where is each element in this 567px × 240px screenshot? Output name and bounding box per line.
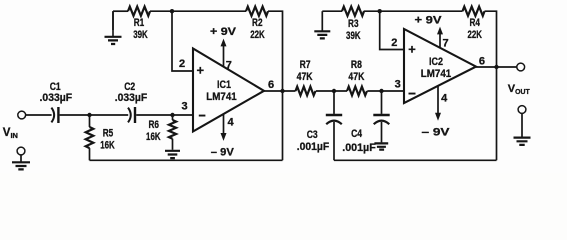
node C2/R6 junction [170,113,174,117]
IC2 pin7 +9V arrow [437,27,443,48]
wire R7 to R8 [316,90,347,92]
svg-text:.001µF: .001µF [297,141,330,153]
IC1 pin7 +9V arrow [221,39,227,67]
IC1 pin4 -9V arrow [221,114,227,141]
IC2 minus input mark [409,93,416,95]
label C3 value .001uF [297,129,330,153]
svg-text:16K: 16K [146,131,161,143]
wire C1 to C2 [60,114,129,116]
svg-text:39K: 39K [346,30,361,42]
svg-text:R7: R7 [300,59,311,71]
node IC1 output junction [280,89,284,93]
ground (below C4) [374,143,388,149]
capacitor C4 [373,91,389,142]
capacitor C1 [51,107,58,123]
svg-text:47K: 47K [348,71,364,83]
ground (below VOUT return) [514,114,531,145]
ground (left of R1) [105,11,122,44]
label C1 value .033uF [40,81,73,104]
label C2 value .033uF [115,81,148,104]
label C4 value .001uF [342,128,376,154]
svg-text:16K: 16K [100,140,115,152]
IC2 pin4 -9V arrow [435,86,441,121]
svg-text:IC2: IC2 [429,56,443,68]
wire top rail stage2 left [322,10,342,12]
resistor R1 [128,7,150,16]
wire C2 to IC1 pin3 [136,114,193,116]
wire node A to IC1 pin2 [172,11,193,71]
label R8 value 47K [348,59,364,83]
svg-text:+ 9V: + 9V [415,15,443,27]
svg-text:.033µF: .033µF [40,92,73,104]
resistor R8 [347,87,367,96]
svg-text:R2: R2 [252,17,263,29]
IC2 plus input mark [409,46,416,53]
svg-text:22K: 22K [250,29,265,41]
resistor R7 [296,87,316,96]
svg-text:2: 2 [179,58,185,70]
svg-text:R3: R3 [348,18,359,30]
svg-text:– 9V: – 9V [211,147,235,159]
svg-text:R1: R1 [134,17,145,29]
node B junction [378,9,382,13]
terminal VIN return [17,147,25,155]
node A junction [170,9,174,13]
wire bottom feedback stage2 [334,159,497,161]
svg-text:LM741: LM741 [206,91,237,103]
node IC2 output junction [494,65,498,69]
label R3 value 39K [346,18,361,42]
svg-text:4: 4 [441,92,448,104]
ground (below R6) [165,151,180,158]
svg-text:7: 7 [443,37,449,49]
svg-text:.001µF: .001µF [342,142,376,154]
label R5 value 16K [100,127,115,151]
label R1 value 39K [133,17,148,41]
wire IC2 output to VOUT terminal [476,66,517,68]
label IC1 LM741 [206,79,237,103]
node C3 junction [332,89,336,93]
ground (left of R3) [314,11,330,38]
svg-text:6: 6 [268,79,274,91]
label R6 value 16K [146,119,161,143]
svg-text:7: 7 [226,60,232,72]
resistor R4 [463,7,485,16]
svg-text:C3: C3 [307,129,318,141]
wire top rail stage1 right + feedback riser down to IC1 output and bottom wire [268,11,283,160]
resistor R3 [342,7,364,16]
label IC2 LM741 [421,56,452,80]
resistor R6 [169,115,176,150]
svg-text:R4: R4 [469,17,480,29]
resistor R2 [246,7,268,16]
op-amp U2 IC2 triangle [404,29,476,103]
node C4 junction [379,89,383,93]
op-amp U1 IC1 triangle [193,49,264,132]
capacitor C3 [326,91,342,160]
terminal VIN (signal) [18,111,26,119]
wire top rail stage1 mid [150,10,246,12]
wire top rail stage2 right + feedback riser down to IC2 output and bottom wire [485,11,497,160]
wire node B to IC2 pin2 [380,11,404,49]
wire VIN to C1 [26,114,52,116]
resistor R5 [86,115,94,160]
terminal VOUT return [518,106,526,114]
wire IC1 output to R7 [264,90,296,92]
svg-text:R5: R5 [103,127,114,139]
svg-text:39K: 39K [133,29,148,41]
terminal VOUT (signal) [517,63,525,71]
wire R8 to IC2 pin3 [367,90,404,92]
svg-text:47K: 47K [297,71,313,83]
svg-text:R6: R6 [148,119,159,131]
wire top rail stage1 left [113,10,128,12]
wire bottom feedback stage1 [90,159,283,161]
svg-text:C4: C4 [351,128,363,140]
svg-text:+ 9V: + 9V [210,26,237,38]
svg-text:3: 3 [181,101,187,113]
svg-text:4: 4 [227,117,234,129]
svg-text:IC1: IC1 [217,79,231,91]
IC1 plus input mark [197,67,204,74]
IC1 minus input mark [199,115,206,117]
label R2 value 22K [250,17,265,41]
svg-text:LM741: LM741 [421,68,452,80]
svg-text:22K: 22K [467,29,482,41]
ground (below VIN return) [12,155,30,169]
wire top rail stage2 mid [364,10,463,12]
svg-text:3: 3 [395,78,401,90]
svg-text:R8: R8 [351,59,362,71]
node C1/R5 junction [87,113,91,117]
svg-text:.033µF: .033µF [115,92,148,104]
label R4 value 22K [467,17,482,41]
label R7 value 47K [297,59,313,83]
svg-text:2: 2 [391,37,397,49]
svg-text:6: 6 [479,55,485,67]
capacitor C2 [128,107,135,123]
svg-text:– 9V: – 9V [422,127,451,139]
